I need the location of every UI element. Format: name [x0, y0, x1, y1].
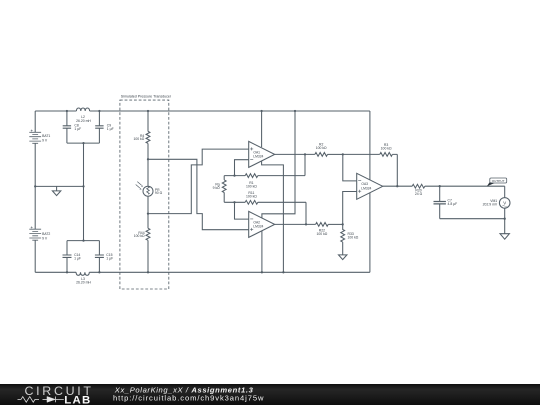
wire W2 node B to OA1 plus: [148, 149, 249, 214]
wire R1 right to feedback: [258, 154, 305, 175]
wire filter2 top link: [67, 240, 99, 242]
photoresistor PR: [136, 182, 153, 197]
wire top supply rail left segment: [35, 110, 76, 112]
svg-text:9 kΩ: 9 kΩ: [213, 186, 221, 190]
ground GND2: [339, 255, 347, 260]
wire OA1 vee: [262, 161, 284, 272]
svg-text:100 kΩ: 100 kΩ: [381, 147, 392, 151]
svg-text:9 V: 9 V: [42, 139, 48, 143]
wire BAT2 bottom: [34, 240, 36, 272]
resistor R22: [316, 223, 329, 227]
svg-text:1 µF: 1 µF: [74, 257, 81, 261]
svg-text:100 kΩ: 100 kΩ: [316, 232, 327, 236]
wire R22 right: [328, 223, 343, 225]
wire bottom supply rail left segment: [35, 271, 76, 273]
svg-text:24 Ω: 24 Ω: [415, 192, 423, 196]
wire R3 line: [343, 153, 380, 155]
wire Rg bottom link: [224, 193, 245, 203]
wire OA2 vee: [261, 231, 263, 272]
svg-text:BAT2: BAT2: [42, 232, 50, 236]
svg-text:1 µF: 1 µF: [107, 127, 114, 131]
op-amp OA2: [249, 211, 275, 237]
wire node B to R44: [147, 214, 149, 229]
svg-text:LM324: LM324: [253, 155, 263, 159]
svg-text:LM324: LM324: [253, 225, 263, 229]
wire C14 bottom: [66, 258, 68, 273]
label OA1: [253, 150, 263, 158]
svg-text:OA3: OA3: [361, 182, 368, 186]
wire bottom supply rail right segment: [89, 271, 370, 273]
wire Rg top link: [224, 176, 245, 180]
resistor R20: [412, 184, 425, 188]
wire C9 bottom: [98, 129, 100, 144]
svg-text:1 µF: 1 µF: [74, 127, 81, 131]
resistor R44: [146, 228, 150, 240]
svg-text:LM324: LM324: [361, 187, 371, 191]
wire mid vertical upper: [83, 143, 85, 186]
wire VM1 bottom: [504, 208, 506, 219]
wire top supply rail right segment: [90, 110, 370, 112]
svg-text:BAT1: BAT1: [42, 134, 50, 138]
battery BAT2: [29, 226, 41, 240]
wire C8 bottom: [66, 129, 68, 144]
wire OA3 plus branch: [343, 192, 357, 225]
wire node A to PR top: [147, 159, 149, 186]
resistor R1: [245, 174, 258, 178]
wire BAT1 bottom: [34, 144, 36, 187]
wire PR bottom to node B: [147, 196, 149, 213]
wire OA3 output line: [383, 185, 413, 187]
wire R3 right feedback: [392, 154, 397, 186]
logo resistor-diode glyph: [18, 397, 64, 403]
wire R2 right: [328, 153, 343, 155]
wire filter1 bottom link: [67, 142, 100, 144]
capacitor C14: [63, 255, 72, 257]
battery BAT1: [29, 130, 41, 144]
ground GND3: [500, 219, 509, 240]
wire bottom right link: [440, 218, 505, 220]
label OA2: [253, 220, 263, 228]
svg-text:1 µF: 1 µF: [106, 257, 113, 261]
dashed enclosure Simulated Pressure Transducer: [120, 100, 169, 289]
svg-text:26.20 mH: 26.20 mH: [76, 119, 91, 123]
svg-text:9 V: 9 V: [42, 237, 48, 241]
svg-text:V: V: [503, 200, 506, 205]
svg-text:202.9 mV: 202.9 mV: [483, 203, 498, 207]
wire C7 bottom: [439, 204, 441, 219]
wire OA3 minus branch: [343, 154, 357, 181]
wire C15 top: [98, 241, 100, 255]
svg-text:100 kΩ: 100 kΩ: [246, 195, 257, 199]
wire C7 top: [439, 186, 441, 201]
wire R4 top: [147, 111, 149, 131]
wire R33 bottom: [342, 242, 344, 255]
svg-text:100 kΩ: 100 kΩ: [316, 146, 327, 150]
resistor R33: [341, 224, 345, 242]
inductor L3: [76, 272, 89, 275]
wire OA3 vcc: [369, 111, 371, 180]
wire OA1 output line: [275, 153, 315, 155]
inductor L2: [76, 108, 89, 111]
wire R44 bottom: [147, 240, 149, 272]
op-amp OA1: [249, 141, 275, 167]
flag OUTPUT: [487, 178, 507, 186]
svg-text:OA1: OA1: [253, 150, 260, 154]
op-amp OA3: [357, 173, 383, 199]
wire OA1 vcc: [261, 111, 263, 147]
wire OA2 output line: [275, 223, 316, 225]
label OA3: [361, 182, 371, 190]
resistor R4: [146, 131, 150, 143]
svg-text:OA2: OA2: [253, 220, 260, 224]
svg-text:http://circuitlab.com/ch9vk3an: http://circuitlab.com/ch9vk3an4j75w: [113, 394, 264, 403]
capacitor C9: [95, 126, 103, 128]
wire BAT2 top: [34, 186, 36, 229]
wire C14 top: [66, 241, 68, 255]
capacitor C7: [434, 202, 446, 204]
wire OA1 minus stub: [235, 160, 249, 176]
resistor R11: [245, 200, 258, 204]
wire C9 top: [98, 111, 100, 126]
svg-text:Simulated Pressure Transducer: Simulated Pressure Transducer: [121, 95, 172, 99]
ground GND1: [52, 186, 60, 195]
wire R4 bottom to node A: [147, 143, 149, 159]
wire BAT1 top: [34, 111, 36, 132]
svg-text:90 Ω: 90 Ω: [155, 191, 163, 195]
capacitor C8: [63, 126, 71, 128]
svg-text:26.20 mH: 26.20 mH: [76, 280, 91, 284]
svg-text:100 kΩ: 100 kΩ: [348, 235, 359, 239]
svg-text:LAB: LAB: [64, 395, 91, 405]
resistor R3: [380, 153, 393, 157]
svg-text:100 kΩ: 100 kΩ: [133, 137, 144, 141]
wire C8 top: [66, 111, 68, 126]
wire R20 right to output node: [425, 185, 505, 187]
wire C15 bottom: [98, 258, 100, 273]
resistor R2: [315, 153, 328, 157]
wire mid vertical lower: [83, 186, 85, 240]
svg-text:100 kΩ: 100 kΩ: [134, 234, 145, 238]
wire OA2 vcc: [262, 111, 295, 218]
wire OA2 minus stub: [235, 202, 249, 219]
wire R11 right to feedback: [258, 202, 306, 224]
capacitor C15: [95, 255, 104, 257]
voltmeter VM1: [499, 198, 510, 209]
resistor Rg: [222, 180, 226, 193]
svg-text:100 kΩ: 100 kΩ: [246, 185, 257, 189]
wire OA3 vee: [369, 193, 371, 272]
svg-text:4.8 µF: 4.8 µF: [448, 202, 458, 206]
wire W1 node A to OA2 plus: [148, 159, 249, 229]
wire mid ground line: [35, 185, 83, 187]
wire VM1 top: [504, 186, 506, 197]
svg-text:OUTPUT: OUTPUT: [492, 179, 505, 183]
